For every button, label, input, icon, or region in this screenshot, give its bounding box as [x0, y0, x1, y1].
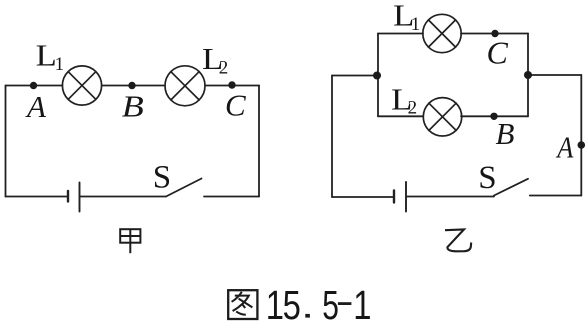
wire: right circuit bottom branch right: [461, 115, 528, 117]
wire: left junction to outer left: [332, 75, 377, 77]
caption 图 (figure character): [228, 290, 257, 319]
label 甲 (left circuit name): [120, 229, 140, 253]
switch S (left), lever: [166, 179, 202, 197]
node junction left (right circuit): [373, 72, 381, 80]
svg-text:B: B: [496, 116, 515, 151]
wire: right circuit outer left vertical: [331, 76, 333, 198]
svg-text:A: A: [555, 131, 573, 165]
caption number 15.5-1: [266, 282, 372, 321]
svg-text:5: 5: [322, 283, 339, 321]
svg-text:B: B: [122, 90, 144, 124]
node junction right (right circuit): [524, 71, 532, 79]
wire: right circuit top branch right: [461, 33, 528, 35]
wire: left circuit top, A-segment: [6, 85, 63, 87]
wire: left circuit bottom left: [6, 196, 68, 198]
label L1 (right circuit): [393, 0, 420, 35]
wire: left circuit right vertical: [258, 86, 260, 197]
battery B-right long plate: [405, 182, 407, 212]
node A (left circuit): [30, 82, 37, 89]
wire: right circuit outer right vertical: [580, 75, 582, 196]
wire: right junction to outer right: [528, 74, 581, 76]
lamp L1 (left circuit): [62, 66, 101, 105]
lamp L2 (left circuit): [165, 66, 205, 106]
lamp L1 (right circuit): [423, 14, 461, 52]
svg-text:1: 1: [55, 54, 65, 75]
wire: left circuit top, between L1 and L2: [102, 85, 165, 87]
svg-text:2: 2: [219, 58, 229, 79]
wire: left circuit top, right of L2: [205, 85, 259, 87]
svg-text:S: S: [478, 160, 496, 196]
node A (right circuit): [578, 141, 586, 149]
svg-text:1: 1: [353, 282, 371, 321]
node B (right circuit): [490, 113, 497, 120]
wire: right circuit bottom middle: [407, 196, 494, 198]
battery B-right short plate: [393, 191, 395, 203]
wire: left circuit bottom middle: [81, 196, 167, 198]
svg-text:1: 1: [266, 282, 284, 321]
battery B-left short plate: [67, 191, 69, 202]
wire: right circuit top branch left: [378, 33, 423, 35]
wire: right circuit inner left vertical: [377, 34, 379, 117]
battery B-left long plate: [79, 183, 81, 212]
wire: right circuit bottom branch left: [378, 115, 423, 117]
svg-text:2: 2: [408, 98, 418, 119]
svg-text:5: 5: [283, 282, 301, 321]
svg-text:S: S: [153, 160, 171, 196]
svg-text:C: C: [225, 88, 246, 123]
node C (left circuit): [228, 81, 235, 88]
label L1 (left circuit): [36, 39, 65, 75]
wire: left circuit left vertical: [5, 86, 7, 197]
wire: right circuit bottom left: [332, 196, 393, 198]
svg-text:A: A: [25, 89, 47, 124]
lamp L2 (right circuit): [423, 98, 461, 136]
wire: right circuit switch contact: [530, 195, 582, 197]
label L2 (left circuit): [202, 43, 228, 79]
wire: left circuit switch contact: [204, 196, 259, 198]
svg-text:C: C: [487, 35, 509, 71]
label L2 (right circuit): [391, 83, 417, 118]
switch S (right), lever: [494, 179, 528, 196]
svg-text:1: 1: [411, 14, 421, 35]
label 乙 (right circuit name): [445, 229, 471, 251]
wire: right circuit inner right vertical: [527, 34, 529, 117]
node B (left circuit): [128, 82, 135, 89]
node C (right circuit): [491, 30, 498, 37]
